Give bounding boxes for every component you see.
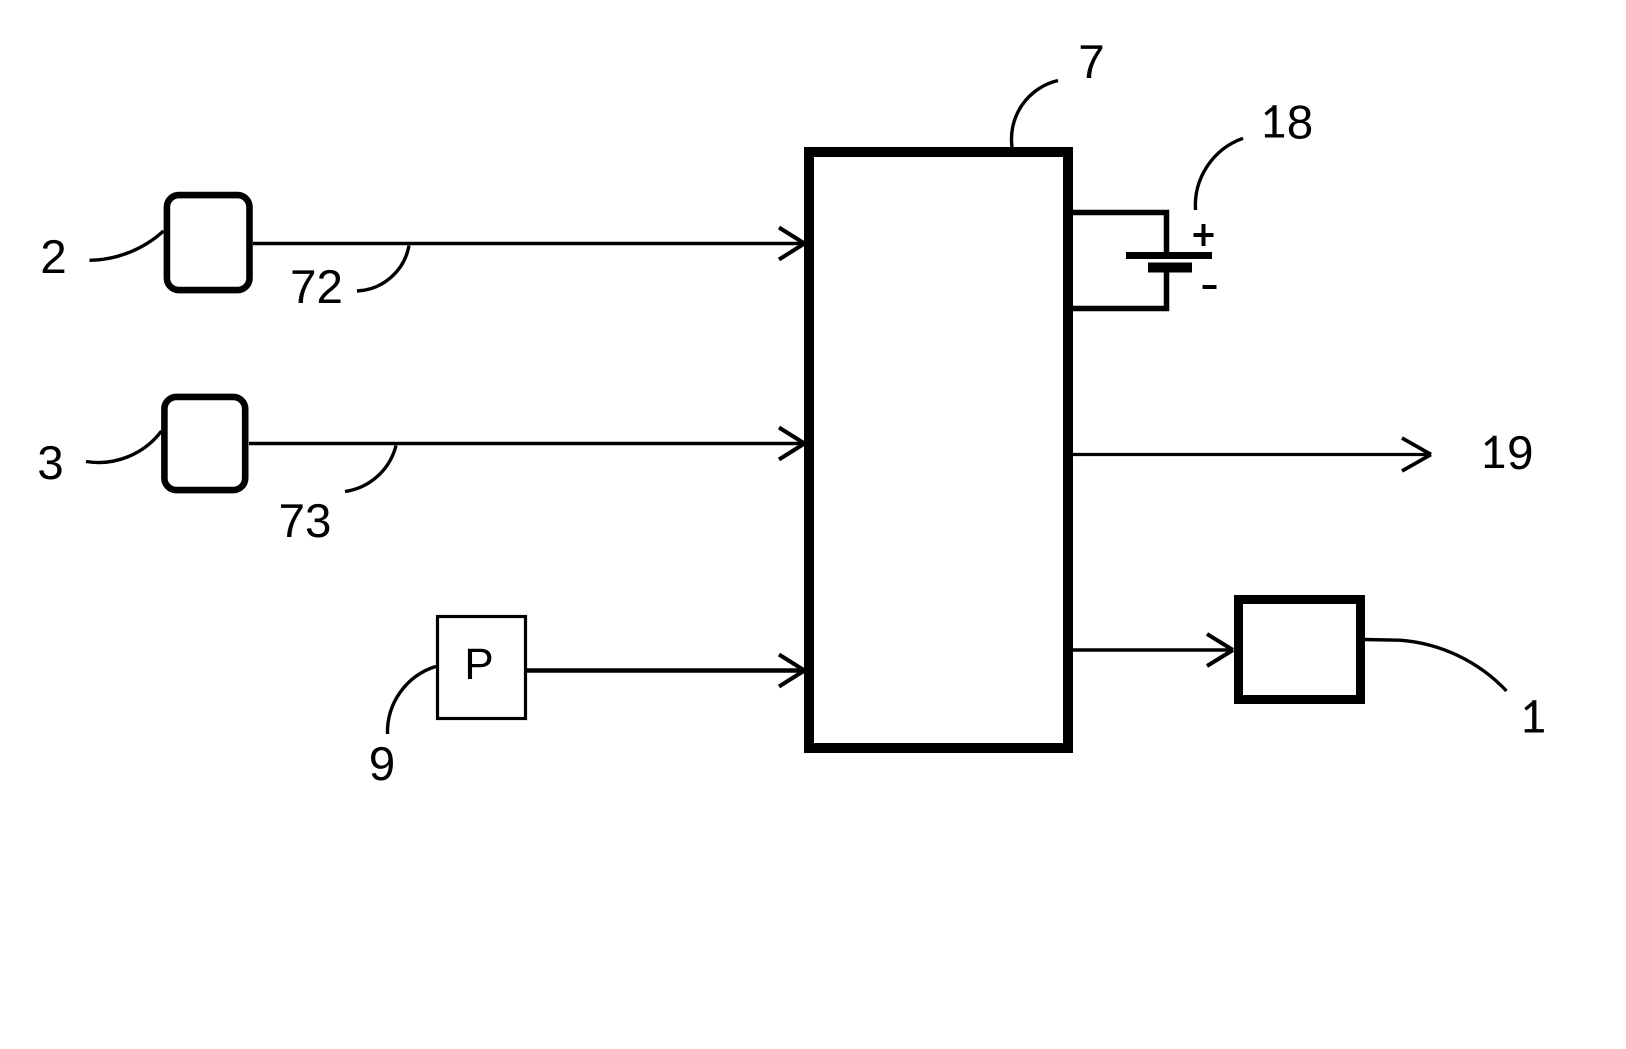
label 3	[39, 446, 62, 480]
leader to label 3	[86, 431, 162, 462]
wire battery top	[1068, 213, 1167, 256]
label 7	[1081, 45, 1103, 78]
leader to label 18	[1195, 138, 1243, 210]
battery 18 negative plate	[1148, 263, 1192, 273]
leader to label 7	[1011, 81, 1058, 148]
wire 9 (arrow from box P to block 7)	[527, 668, 803, 673]
leader to label 2	[90, 231, 164, 260]
label 2	[43, 240, 65, 273]
wire 72 (arrow from box 2 to block 7)	[253, 242, 803, 245]
label 1	[1525, 700, 1544, 732]
label 72	[293, 270, 315, 303]
block U7 (main unit)	[809, 152, 1068, 748]
wire to box 1 (output arrow)	[1071, 648, 1231, 652]
leader to label 72	[357, 246, 409, 292]
box 1 (output device)	[1239, 600, 1361, 700]
label 73	[281, 504, 303, 537]
plus sign	[1194, 224, 1214, 246]
wire 73 (arrow from box 3 to block 7)	[249, 442, 803, 445]
input box 2	[167, 195, 250, 290]
leader to label 1	[1365, 640, 1507, 692]
label 9	[371, 747, 393, 781]
label 19	[1485, 436, 1531, 470]
input box 3	[164, 397, 245, 490]
battery 18 positive plate	[1126, 252, 1212, 259]
label P	[468, 649, 491, 679]
box P (sensor 9)	[438, 617, 526, 719]
leader to label 9	[387, 666, 436, 734]
wire 19 (output arrow)	[1068, 453, 1429, 456]
label 18	[1265, 105, 1311, 139]
leader to label 73	[345, 446, 396, 492]
minus sign	[1203, 285, 1217, 289]
wire battery bottom	[1068, 272, 1167, 309]
